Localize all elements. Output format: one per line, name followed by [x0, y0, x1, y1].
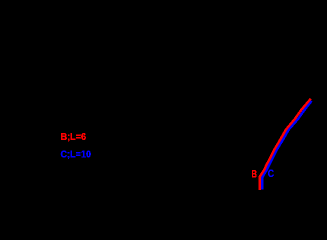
svg-text:B;L=6: B;L=6: [61, 131, 87, 143]
svg-text:C: C: [268, 168, 274, 180]
svg-text:C;L=10: C;L=10: [61, 149, 92, 161]
svg-text:B: B: [252, 168, 258, 180]
